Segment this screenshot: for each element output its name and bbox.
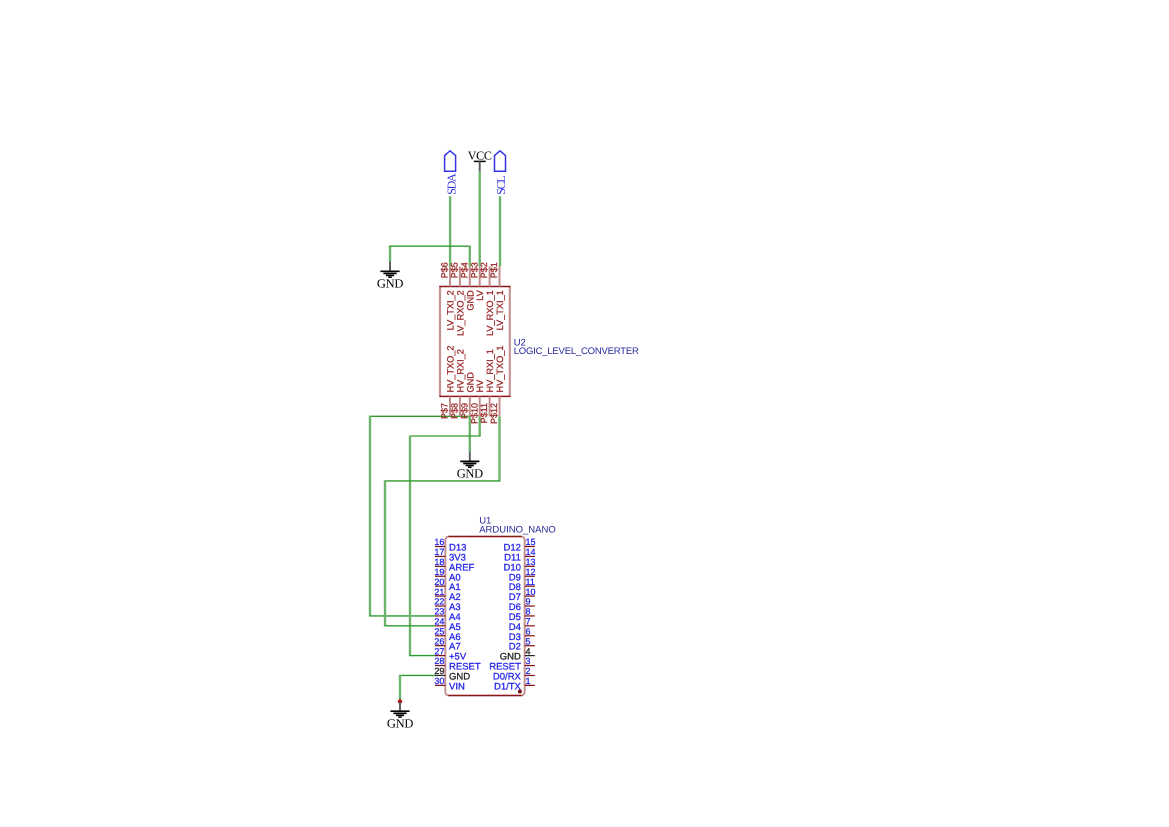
- U1 pin 19 (A0) left: [434, 567, 460, 583]
- svg-text:20: 20: [434, 577, 444, 587]
- svg-text:8: 8: [526, 607, 531, 617]
- svg-text:SCL: SCL: [494, 176, 508, 195]
- U1 pin 5 (D2) right: [509, 636, 535, 652]
- U1 pin 14 (D11) right: [504, 547, 535, 563]
- svg-text:VIN: VIN: [449, 681, 465, 692]
- svg-text:16: 16: [434, 537, 444, 547]
- U1 pin 8 (D5) right: [509, 607, 535, 623]
- wire segment into U1 pin +5V: [409, 655, 435, 657]
- wire segment vertical to +5V row: [409, 436, 411, 657]
- svg-text:GND: GND: [465, 290, 475, 311]
- svg-text:15: 15: [526, 537, 536, 547]
- wire segment P$7/P$8/P$9 horizontal: [369, 415, 470, 417]
- svg-text:LOGIC_LEVEL_CONVERTER: LOGIC_LEVEL_CONVERTER: [514, 346, 639, 357]
- ground GND (middle): [457, 451, 483, 480]
- U1 pin 26 (A7) left: [434, 636, 460, 652]
- U1 pin 17 (3V3) left: [434, 547, 466, 563]
- U1 pin 25 (A6) left: [434, 626, 460, 642]
- ground GND (bottom): [387, 701, 413, 730]
- svg-text:D1/TX: D1/TX: [494, 681, 522, 692]
- svg-text:28: 28: [434, 656, 444, 666]
- wire segment from U1 pin GND(29): [399, 674, 435, 676]
- U1 pin 30 (VIN) left: [434, 676, 465, 692]
- svg-text:P$2: P$2: [479, 262, 489, 278]
- wire segment P$9 to middle ground: [469, 416, 471, 452]
- svg-text:P$12: P$12: [489, 403, 499, 424]
- svg-text:P$3: P$3: [469, 262, 479, 278]
- wire segment vertical down left: [369, 416, 371, 617]
- svg-text:9: 9: [526, 597, 531, 607]
- svg-text:P$1: P$1: [489, 262, 499, 278]
- U2 pin P$1 (LV_TXI_1) top: [489, 262, 505, 330]
- IC U1 ARDUINO_NANO body: [445, 537, 524, 696]
- U1 pin 28 (RESET) left: [434, 656, 480, 672]
- wire segment down to bottom ground: [399, 675, 401, 701]
- U2 pin P$8 (HV_RXI_2) bottom: [450, 349, 466, 419]
- svg-text:13: 13: [526, 557, 536, 567]
- svg-text:22: 22: [434, 597, 444, 607]
- svg-text:LV_TXI_2: LV_TXI_2: [446, 290, 456, 330]
- svg-text:P$10: P$10: [469, 403, 479, 424]
- svg-text:25: 25: [434, 626, 444, 636]
- svg-text:4: 4: [526, 646, 531, 656]
- U1 pin 20 (A1) left: [434, 577, 460, 593]
- wire segment from U2 pin P$12 down: [498, 416, 500, 481]
- svg-text:24: 24: [434, 617, 444, 627]
- wire segment P$12 horizontal: [384, 480, 500, 482]
- svg-text:P$8: P$8: [450, 403, 460, 419]
- wire segment vertical to A5 row: [384, 480, 386, 626]
- net flag SCL: [494, 151, 508, 195]
- svg-text:29: 29: [434, 666, 444, 676]
- svg-text:HV: HV: [475, 379, 485, 393]
- svg-text:2: 2: [526, 666, 531, 676]
- U1 pin 27 (+5V) left: [434, 646, 466, 662]
- svg-text:P$7: P$7: [440, 403, 450, 419]
- U1 pin 22 (A3) left: [434, 597, 460, 613]
- svg-text:LV_RXO_1: LV_RXO_1: [485, 290, 495, 336]
- U1 pin 6 (D3) right: [509, 626, 535, 642]
- U1 pin 10 (D7) right: [509, 587, 536, 603]
- U1 pin 4 (GND) right: [500, 646, 535, 662]
- wire SCL to U2 pin P$1: [499, 196, 501, 266]
- wire segment P$10 horizontal: [409, 435, 480, 437]
- power symbol VCC: [468, 148, 492, 171]
- svg-text:30: 30: [434, 676, 444, 686]
- U1 pin 3 (RESET) right: [489, 656, 535, 672]
- svg-text:P$11: P$11: [479, 403, 489, 423]
- svg-text:10: 10: [526, 587, 536, 597]
- wire SDA to U2 pin P$6: [449, 196, 451, 266]
- U2 pin P$2 (LV_RXO_1) top: [479, 262, 495, 336]
- U1 pin 1 (D1/TX) right: [494, 676, 535, 692]
- ground GND (top left): [377, 261, 403, 290]
- U1 pin 18 (AREF) left: [434, 557, 474, 573]
- U2 pin P$5 (LV_RXO_2) top: [450, 262, 466, 336]
- svg-text:3: 3: [526, 656, 531, 666]
- svg-text:26: 26: [434, 636, 444, 646]
- svg-text:GND: GND: [457, 467, 483, 481]
- U2 pin P$7 (HV_TXO_2) bottom: [440, 346, 456, 420]
- svg-text:21: 21: [434, 587, 444, 597]
- U2 pin P$3 (LV) top: [469, 262, 485, 301]
- U1 pin 29 (GND) left: [434, 666, 470, 682]
- svg-text:GND: GND: [465, 372, 475, 393]
- svg-text:HV_TXO_1: HV_TXO_1: [495, 346, 505, 393]
- svg-text:6: 6: [526, 626, 531, 636]
- svg-text:P$4: P$4: [459, 262, 469, 278]
- svg-text:VCC: VCC: [468, 148, 492, 162]
- svg-text:18: 18: [434, 557, 444, 567]
- svg-text:HV_RXI_2: HV_RXI_2: [455, 349, 465, 392]
- svg-text:19: 19: [434, 567, 444, 577]
- svg-text:LV: LV: [475, 289, 485, 300]
- svg-text:HV_TXO_2: HV_TXO_2: [446, 346, 456, 393]
- svg-text:SDA: SDA: [444, 173, 458, 195]
- wire segment down to U2 pin P$4: [469, 246, 471, 267]
- svg-text:11: 11: [526, 577, 535, 587]
- svg-text:P$5: P$5: [450, 262, 460, 278]
- junction dot at U1 pin D1/TX: [518, 690, 522, 694]
- svg-text:1: 1: [526, 676, 531, 686]
- svg-text:GND: GND: [377, 277, 403, 291]
- U2 pin P$12 (HV_TXO_1) bottom: [489, 346, 505, 425]
- svg-text:7: 7: [526, 617, 531, 627]
- IC U2 LOGIC_LEVEL_CONVERTER body: [440, 286, 511, 397]
- svg-text:27: 27: [434, 646, 444, 656]
- svg-text:LV_TXI_1: LV_TXI_1: [495, 290, 505, 330]
- svg-text:12: 12: [526, 567, 536, 577]
- svg-text:5: 5: [526, 636, 531, 646]
- U1 pin 15 (D12) right: [503, 537, 535, 553]
- svg-text:14: 14: [526, 547, 536, 557]
- svg-text:HV_RXI_1: HV_RXI_1: [485, 349, 495, 392]
- wire VCC to U2 pin P$3: [479, 171, 481, 266]
- U1 pin 16 (D13) left: [434, 537, 466, 553]
- wire segment into U1 pin A5: [384, 625, 435, 627]
- junction dot: [398, 699, 402, 703]
- U2 pin P$6 (LV_TXI_2) top: [440, 262, 456, 330]
- wire segment top ground vertical: [389, 246, 391, 262]
- net flag SDA: [444, 151, 458, 195]
- U2 pin P$9 (GND) bottom: [459, 372, 475, 419]
- svg-text:17: 17: [434, 547, 444, 557]
- svg-text:P$6: P$6: [440, 262, 450, 278]
- U2 pin P$10 (HV) bottom: [469, 379, 485, 424]
- U2 pin P$4 (GND) top: [459, 262, 475, 310]
- U1 pin 9 (D6) right: [509, 597, 535, 613]
- svg-text:23: 23: [434, 607, 444, 617]
- svg-text:LV_RXO_2: LV_RXO_2: [455, 290, 465, 336]
- U1 pin 23 (A4) left: [434, 607, 460, 623]
- wire segment from U2 pin P$10 down: [479, 416, 481, 436]
- wire segment top ground horizontal: [389, 245, 470, 247]
- U1 pin 11 (D8) right: [509, 577, 535, 593]
- U1 pin 7 (D4) right: [509, 617, 535, 633]
- U1 pin 2 (D0/RX) right: [493, 666, 535, 682]
- U1 pin 24 (A5) left: [434, 617, 460, 633]
- wire segment into U1 pin A4: [369, 615, 435, 617]
- svg-text:P$9: P$9: [459, 403, 469, 419]
- U1 pin 21 (A2) left: [434, 587, 460, 603]
- svg-text:ARDUINO_NANO: ARDUINO_NANO: [479, 524, 556, 535]
- U1 pin 13 (D10) right: [503, 557, 535, 573]
- U2 pin P$11 (HV_RXI_1) bottom: [479, 349, 495, 423]
- svg-text:GND: GND: [387, 716, 413, 730]
- U1 pin 12 (D9) right: [509, 567, 536, 583]
